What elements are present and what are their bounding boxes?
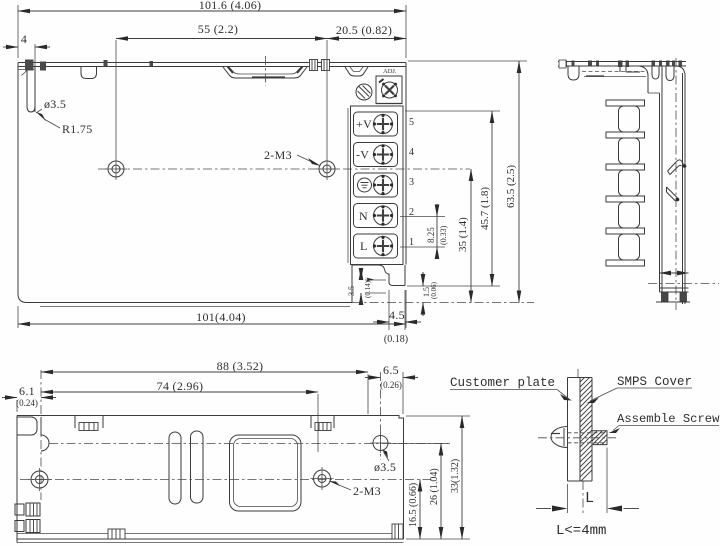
svg-text:L<=4mm: L<=4mm	[556, 523, 606, 539]
svg-text:(0.26): (0.26)	[380, 380, 402, 390]
svg-text:6.5: 6.5	[383, 363, 399, 377]
bottom view hole mid 2-M3 (target)	[311, 467, 334, 490]
label Assemble Screw	[609, 412, 720, 433]
svg-text:R1.75: R1.75	[62, 122, 93, 136]
bottom view hole right ø3.5	[371, 433, 391, 453]
bottom view foot bottom-center	[108, 529, 125, 539]
side view vent column	[606, 100, 645, 266]
dim 101.6 top	[18, 0, 406, 58]
svg-text:ADJ.: ADJ.	[383, 68, 397, 75]
label 2-M3 bottom view	[329, 481, 381, 498]
svg-text:-V: -V	[356, 148, 369, 162]
potentiometer screw	[379, 79, 398, 98]
terminal cell 4 (-V)	[354, 143, 398, 167]
svg-text:L: L	[360, 239, 368, 253]
svg-text:16.5 (0.66): 16.5 (0.66)	[408, 483, 419, 527]
assemble screw head	[551, 427, 568, 448]
svg-text:101(4.04): 101(4.04)	[196, 310, 246, 324]
detail inset SMPS cover hatched	[580, 370, 592, 482]
mounting hole left (top view)	[105, 158, 127, 180]
side view bottom bracket	[648, 271, 719, 302]
top edge louver tab small	[345, 67, 368, 76]
dim L	[536, 448, 639, 517]
svg-text:(0.14): (0.14)	[364, 280, 372, 298]
label R1.75 with leader	[36, 112, 93, 136]
terminal cell 2 (N)	[354, 204, 398, 228]
svg-text:55 (2.2): 55 (2.2)	[198, 22, 238, 36]
svg-text:45.7 (1.8): 45.7 (1.8)	[479, 187, 491, 230]
svg-text:ø3.5: ø3.5	[44, 97, 66, 111]
side view wall lines	[648, 58, 685, 310]
svg-text:63.5 (2.5): 63.5 (2.5)	[505, 165, 517, 208]
label Customer plate	[450, 376, 572, 401]
bottom view corner ear	[18, 417, 38, 435]
svg-text:(0.24): (0.24)	[16, 398, 38, 408]
dim 45.7	[405, 111, 500, 286]
top view top edge tick	[150, 61, 154, 67]
bottom view top tab 1	[75, 416, 103, 431]
bottom protrusion outline	[352, 265, 405, 286]
svg-text:SMPS Cover: SMPS Cover	[617, 375, 692, 389]
top edge left corner notch	[18, 60, 108, 113]
label SMPS Cover	[587, 375, 693, 403]
svg-text:2-M3: 2-M3	[264, 148, 292, 162]
side view top band	[558, 60, 686, 81]
potentiometer box	[376, 76, 402, 104]
dim 74	[41, 379, 318, 452]
svg-text:74 (2.96): 74 (2.96)	[157, 379, 204, 393]
svg-text:8.25: 8.25	[426, 227, 436, 243]
dim 33	[406, 416, 470, 539]
svg-text:35 (1.4): 35 (1.4)	[457, 217, 469, 252]
bottom view hole left (target)	[28, 468, 51, 491]
dim 4.5 protrusion	[373, 290, 421, 345]
svg-text:Assemble Screw: Assemble Screw	[617, 412, 720, 426]
top edge small hatched tabs	[310, 60, 330, 71]
svg-text:5: 5	[409, 117, 414, 128]
bottom view centerlines	[20, 370, 448, 500]
svg-text:Customer plate: Customer plate	[450, 376, 555, 390]
dim 35	[457, 169, 471, 303]
svg-text:3: 3	[409, 177, 414, 188]
small dim 3.5 left of protrusion	[347, 268, 386, 305]
bottom view big cutout	[230, 435, 302, 511]
terminal cell 3 (earth)	[354, 173, 398, 197]
small dim 1.5 right of protrusion	[422, 272, 438, 316]
svg-text:(0.18): (0.18)	[384, 334, 408, 345]
terminal block outer box	[348, 106, 403, 265]
bottom edge extension line	[352, 302, 534, 304]
side view louver brackets	[667, 160, 687, 201]
top edge louver tab large	[223, 56, 307, 86]
dim 6.5	[365, 363, 418, 414]
svg-text:(0.06): (0.06)	[430, 281, 438, 299]
side view band tick marks	[563, 61, 682, 68]
bottom view outline	[17, 416, 404, 543]
dim 88	[41, 359, 368, 414]
svg-text:26 (1.04): 26 (1.04)	[429, 468, 440, 505]
bottom view semicircle notch	[41, 417, 49, 451]
top view inner left edge line	[34, 67, 36, 113]
terminal cell 5 (+V)	[354, 112, 398, 136]
bottom view feet left	[15, 503, 40, 533]
hole centerline horizontal	[98, 168, 470, 170]
svg-text:33(1.32): 33(1.32)	[450, 459, 461, 493]
detail inset customer plate	[568, 378, 593, 482]
dim 63.5	[408, 61, 527, 303]
terminal cell 1 (L)	[354, 234, 398, 258]
mounting hole right 2-M3 (top view)	[316, 158, 338, 180]
hole centerline vertical right	[326, 40, 328, 158]
svg-text:2-M3: 2-M3	[353, 484, 381, 498]
hole centerline vertical left	[115, 40, 117, 158]
label 2-M3 top view with leader	[264, 148, 321, 166]
dim 101 bottom of top view	[18, 290, 406, 328]
svg-text:3.5: 3.5	[347, 286, 356, 296]
svg-text:101.6 (4.06): 101.6 (4.06)	[199, 0, 262, 12]
dim 8.25	[400, 204, 448, 259]
bottom view foot bottom-right	[392, 524, 403, 539]
svg-text:L: L	[585, 490, 594, 507]
LED hatched circle	[356, 84, 372, 100]
svg-text:ø3.5: ø3.5	[374, 460, 396, 474]
label ø3.5 bottom view	[374, 450, 396, 475]
svg-text:20.5 (0.82): 20.5 (0.82)	[336, 23, 392, 37]
svg-text:4: 4	[21, 32, 27, 46]
svg-text:+V: +V	[356, 117, 372, 131]
pin numbers	[409, 117, 414, 248]
top view chassis outline	[18, 63, 406, 307]
dim 55	[116, 22, 327, 39]
dim 16.5	[408, 480, 420, 540]
label ø3.5 with leader	[36, 97, 66, 113]
dim 4 left	[3, 32, 50, 66]
bottom view slot 2	[191, 431, 204, 503]
svg-text:4: 4	[409, 147, 414, 158]
svg-text:N: N	[359, 209, 368, 223]
dim 6.1	[2, 384, 56, 412]
svg-text:6.1: 6.1	[19, 384, 35, 398]
svg-text:1: 1	[409, 237, 414, 248]
bottom view top tab 2	[311, 416, 334, 431]
assemble screw shank	[538, 431, 616, 445]
dim 20.5	[327, 23, 406, 39]
svg-text:4.5: 4.5	[389, 308, 405, 322]
dim 26	[390, 444, 450, 540]
svg-text:88 (3.52): 88 (3.52)	[217, 359, 264, 373]
bottom view slot 1	[169, 432, 181, 504]
svg-text:(0.33): (0.33)	[439, 225, 448, 245]
top edge notch U mid-left	[81, 67, 97, 79]
